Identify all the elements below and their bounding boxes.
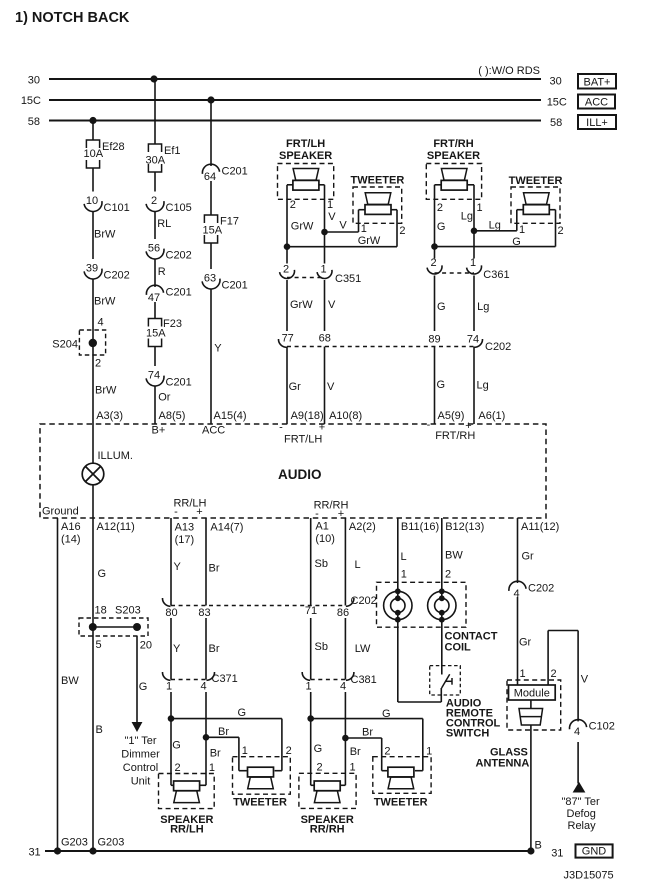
svg-text:( ):W/O RDS: ( ):W/O RDS (478, 65, 540, 77)
wire C201 to fuse F23 (154, 302, 156, 319)
svg-text:(10): (10) (315, 533, 335, 545)
svg-text:FRT/RH: FRT/RH (435, 430, 475, 442)
svg-text:C381: C381 (351, 674, 377, 686)
wire F17 to C201-63 (210, 243, 212, 269)
svg-text:C201: C201 (166, 286, 192, 298)
wire speaker FRT/RH pin1 (467, 184, 474, 186)
pin A13(17) wire Y (170, 518, 172, 606)
svg-text:2: 2 (551, 668, 557, 680)
svg-text:Gr: Gr (519, 637, 532, 649)
svg-text:Ef28: Ef28 (102, 141, 125, 153)
svg-text:SWITCH: SWITCH (446, 728, 489, 740)
svg-text:1: 1 (477, 202, 483, 214)
wire LW C202 to C381 (344, 618, 346, 680)
svg-text:Relay: Relay (568, 820, 597, 832)
svg-text:Gr: Gr (289, 381, 302, 393)
svg-text:2: 2 (399, 225, 405, 237)
bus 30 (49, 78, 541, 80)
svg-text:2: 2 (445, 569, 451, 581)
svg-text:L: L (401, 551, 407, 563)
svg-text:C105: C105 (166, 202, 192, 214)
junction G203 A16 (54, 847, 61, 854)
svg-text:G203: G203 (61, 837, 88, 849)
svg-text:F23: F23 (163, 318, 182, 330)
svg-text:G: G (314, 743, 323, 755)
wire Br C202 to C371 (205, 618, 207, 680)
svg-text:74: 74 (467, 334, 479, 346)
svg-text:2: 2 (283, 264, 289, 276)
wire S203 to dimmer control unit (136, 636, 138, 712)
svg-text:30A: 30A (146, 155, 166, 167)
svg-text:A11(12): A11(12) (521, 521, 559, 533)
svg-text:TWEETER: TWEETER (351, 175, 405, 187)
svg-text:58: 58 (28, 116, 40, 128)
arrow 87 Ter defog relay (574, 783, 585, 792)
svg-text:A10(8): A10(8) (329, 410, 362, 422)
glass antenna module box (507, 680, 561, 730)
tweeter FRT/LH box (353, 187, 402, 223)
svg-text:C202: C202 (166, 250, 192, 262)
svg-text:B12(13): B12(13) (445, 521, 484, 533)
svg-text:Ground: Ground (42, 506, 79, 518)
svg-text:C201: C201 (222, 165, 248, 177)
svg-text:2: 2 (430, 257, 436, 269)
svg-text:+: + (196, 506, 202, 518)
svg-text:A12(11): A12(11) (97, 521, 135, 533)
svg-text:BW: BW (445, 550, 463, 562)
wire Sb C202 to C381 (310, 618, 312, 680)
wire GrW C351 to C202 (286, 280, 288, 331)
svg-text:B+: B+ (152, 425, 166, 437)
svg-text:FRT/RH: FRT/RH (433, 138, 473, 150)
wire G C361 to C202 (434, 276, 436, 332)
svg-text:Lg: Lg (477, 380, 489, 392)
wire BrW C202 to AUDIO A3 (92, 279, 94, 424)
svg-text:4: 4 (98, 317, 104, 329)
speaker RR/LH symbol (174, 781, 200, 791)
svg-text:1) NOTCH BACK: 1) NOTCH BACK (15, 10, 130, 26)
fuse Ef28 10A (86, 140, 99, 148)
svg-text:BrW: BrW (94, 296, 116, 308)
svg-text:G: G (172, 739, 181, 751)
wire Gr C202 to A9 (286, 347, 288, 425)
svg-text:C202: C202 (104, 270, 130, 282)
junction glass antenna ground (527, 847, 534, 854)
pin A16(14) wire BW (57, 518, 59, 851)
svg-text:1: 1 (520, 668, 526, 680)
svg-text:V: V (328, 211, 336, 223)
pin B11(16) wire L (397, 518, 399, 598)
pin A12(11) wire G (92, 518, 94, 851)
bus 15C (49, 99, 541, 101)
wire G C202 to A5 (434, 347, 436, 425)
wire Y C202 to C371 (170, 618, 172, 680)
speaker FRT/RH box (426, 164, 481, 200)
svg-text:31: 31 (551, 848, 563, 860)
fuse Ef1 30A (148, 144, 161, 152)
svg-text:5: 5 (96, 639, 102, 651)
svg-text:15C: 15C (21, 95, 41, 107)
svg-text:56: 56 (148, 243, 160, 255)
svg-text:A9(18): A9(18) (291, 410, 324, 422)
wire 58 to fuse Ef28 (92, 121, 94, 141)
wire tweeter FRT/LH pin2 (396, 210, 398, 247)
wire BrW C101 to C202 (92, 212, 94, 260)
terminal box ILL+ (578, 115, 616, 129)
svg-text:Br: Br (210, 748, 221, 760)
wire V C351 to C202 (324, 280, 326, 331)
wire tweeter FRT/RH pin2 (555, 210, 557, 247)
svg-text:Control: Control (123, 762, 158, 774)
svg-text:15C: 15C (547, 97, 567, 109)
svg-text:RR/RH: RR/RH (310, 824, 345, 836)
svg-text:S203: S203 (115, 605, 141, 617)
arrow to dimmer control unit (136, 712, 138, 723)
svg-text:B: B (96, 724, 103, 736)
svg-text:1: 1 (401, 569, 407, 581)
svg-text:-: - (174, 506, 178, 518)
tweeter FRT/RH box (511, 187, 560, 223)
svg-text:ANTENNA: ANTENNA (476, 758, 530, 770)
terminal box ACC (578, 95, 615, 109)
svg-text:Y: Y (214, 343, 222, 355)
svg-text:A16: A16 (61, 521, 81, 533)
wire RL C105 to C202 (154, 212, 156, 240)
svg-text:1: 1 (470, 257, 476, 269)
tweeter FRT/LH symbol (365, 193, 391, 205)
tweeter RR/LH symbol (248, 767, 274, 777)
svg-text:TWEETER: TWEETER (233, 796, 287, 808)
svg-text:31: 31 (28, 847, 40, 859)
svg-text:SPEAKER: SPEAKER (427, 150, 480, 162)
svg-text:TWEETER: TWEETER (509, 175, 563, 187)
speaker FRT/RH symbol (441, 169, 467, 181)
svg-text:Br: Br (209, 643, 220, 655)
svg-text:C351: C351 (335, 273, 361, 285)
svg-text:Lg: Lg (461, 211, 473, 223)
audio remote control switch box (430, 666, 461, 695)
svg-text:AUDIO: AUDIO (278, 467, 322, 482)
svg-text:4: 4 (574, 726, 580, 738)
svg-text:Br: Br (362, 727, 373, 739)
wire R C202 to C201 (154, 259, 156, 287)
svg-text:20: 20 (140, 640, 152, 652)
svg-text:"87" Ter: "87" Ter (562, 796, 601, 808)
svg-text:G: G (437, 379, 446, 391)
svg-text:-: - (279, 422, 283, 434)
svg-text:C371: C371 (212, 673, 238, 685)
wire B11 to switch (398, 701, 442, 703)
wire Br to tweeter RR/LH pin1 (206, 736, 239, 738)
svg-text:G203: G203 (98, 837, 125, 849)
svg-text:G: G (437, 301, 446, 313)
svg-text:J3D15075: J3D15075 (564, 870, 614, 882)
wire C201 to fuse F17 (210, 181, 212, 215)
svg-text:Lg: Lg (489, 220, 501, 232)
svg-text:R: R (158, 266, 166, 278)
svg-text:71: 71 (305, 605, 317, 617)
wire Y C201 to AUDIO A15 (210, 289, 212, 424)
svg-text:1: 1 (519, 224, 525, 236)
svg-text:+: + (319, 422, 325, 434)
pin A1(10) wire Sb (310, 518, 312, 606)
junction bus15C to C201-64 (207, 96, 214, 103)
svg-text:BAT+: BAT+ (583, 77, 610, 89)
svg-text:1: 1 (209, 762, 215, 774)
svg-text:39: 39 (86, 263, 98, 275)
svg-text:Defog: Defog (567, 808, 596, 820)
wire Gr C202 to module (517, 597, 519, 685)
svg-text:77: 77 (282, 333, 294, 345)
svg-text:V: V (327, 381, 335, 393)
wire tweeter FRT/RH pin1 (516, 210, 518, 231)
pin A14(7) wire Br (205, 518, 207, 606)
wire Ef1 to C105 (154, 172, 156, 192)
svg-text:V: V (581, 674, 589, 686)
svg-text:Sb: Sb (315, 641, 328, 653)
svg-text:2: 2 (558, 225, 564, 237)
pin B12(13) wire BW (441, 518, 443, 598)
bus 58 (49, 120, 541, 122)
AUDIO unit box (40, 424, 546, 518)
svg-text:ILL+: ILL+ (586, 117, 608, 129)
fuse F17 15A (204, 215, 217, 223)
svg-text:F17: F17 (220, 216, 239, 228)
svg-text:4: 4 (340, 681, 346, 693)
connector C381 pins 1 4 (302, 672, 310, 680)
svg-text:(17): (17) (175, 534, 195, 546)
svg-text:V: V (328, 299, 336, 311)
svg-text:G: G (238, 707, 247, 719)
svg-text:Module: Module (514, 688, 550, 700)
svg-text:G: G (382, 708, 391, 720)
switch contact and lever (442, 674, 450, 688)
svg-text:4: 4 (200, 681, 206, 693)
wire Br C381 to speaker RR/RH pin1 (344, 692, 346, 785)
svg-text:Br: Br (350, 746, 361, 758)
wire glass antenna to ground 31 (530, 725, 532, 851)
svg-text:2: 2 (151, 195, 157, 207)
svg-text:(14): (14) (61, 534, 81, 546)
svg-text:30: 30 (550, 76, 562, 88)
svg-text:2: 2 (95, 357, 101, 369)
svg-text:83: 83 (198, 607, 210, 619)
wire Ef28 to C101 (92, 168, 94, 192)
splice S204 (79, 330, 105, 355)
svg-text:L: L (355, 559, 361, 571)
bus 31 (45, 850, 531, 852)
svg-text:Lg: Lg (477, 301, 489, 313)
svg-text:BW: BW (61, 675, 79, 687)
wire G C381 to speaker RR/RH pin2 (310, 692, 312, 785)
connector C202 row pins 80 83 71 86 (162, 598, 170, 606)
wire Or C201 to AUDIO A8 (154, 386, 156, 424)
svg-text:Sb: Sb (315, 558, 328, 570)
svg-text:Or: Or (158, 392, 171, 404)
svg-text:C201: C201 (166, 377, 192, 389)
svg-text:1: 1 (426, 746, 432, 758)
wire Lg C361 to C202 (473, 276, 475, 332)
wire V C202 to A10 (324, 347, 326, 425)
svg-text:Br: Br (218, 726, 229, 738)
svg-text:GrW: GrW (290, 299, 313, 311)
terminal box BAT+ (578, 74, 616, 89)
svg-text:G: G (512, 236, 521, 248)
pin A11(12) wire Gr (517, 518, 519, 583)
glass antenna element (530, 700, 532, 709)
junction FRT/RH pin2 to tweeter (431, 243, 438, 250)
svg-text:A2(2): A2(2) (349, 521, 376, 533)
svg-text:V: V (339, 220, 347, 232)
wire Br C371 to speaker RR/LH pin1 (205, 692, 207, 785)
svg-text:2: 2 (384, 746, 390, 758)
svg-text:1: 1 (166, 681, 172, 693)
svg-text:GrW: GrW (291, 221, 314, 233)
svg-text:47: 47 (148, 292, 160, 304)
svg-text:RR/LH: RR/LH (170, 824, 204, 836)
svg-text:80: 80 (165, 607, 177, 619)
svg-text:63: 63 (204, 273, 216, 285)
svg-text:15A: 15A (146, 328, 166, 340)
svg-text:C202: C202 (351, 595, 377, 607)
svg-text:A15(4): A15(4) (214, 410, 247, 422)
svg-text:A5(9): A5(9) (438, 410, 465, 422)
svg-text:GND: GND (582, 846, 607, 858)
svg-text:86: 86 (337, 607, 349, 619)
svg-text:68: 68 (319, 333, 331, 345)
tweeter RR/LH box (233, 757, 291, 795)
svg-text:A6(1): A6(1) (478, 410, 505, 422)
svg-text:1: 1 (361, 223, 367, 235)
svg-text:A8(5): A8(5) (159, 410, 186, 422)
svg-text:S204: S204 (52, 339, 78, 351)
svg-text:C102: C102 (589, 721, 615, 733)
speaker RR/RH symbol (314, 781, 340, 791)
svg-text:BrW: BrW (95, 384, 117, 396)
svg-text:2: 2 (286, 745, 292, 757)
svg-text:B: B (535, 840, 542, 852)
svg-text:Y: Y (173, 643, 181, 655)
svg-text:2: 2 (437, 202, 443, 214)
svg-text:1: 1 (305, 681, 311, 693)
svg-text:74: 74 (148, 370, 160, 382)
wire F23 to C201-74 (154, 347, 156, 367)
svg-text:FRT/LH: FRT/LH (284, 434, 322, 446)
wire Br to tweeter RR/RH pin2 (345, 737, 381, 739)
speaker RR/LH box (159, 774, 215, 809)
svg-text:1: 1 (242, 745, 248, 757)
svg-text:ACC: ACC (202, 425, 225, 437)
wire V C102 to defog relay (577, 742, 579, 784)
svg-text:1: 1 (320, 264, 326, 276)
pin A2(2) wire L (344, 518, 346, 606)
wire G C371 to speaker RR/LH pin2 (170, 692, 172, 785)
speaker FRT/LH box (278, 164, 334, 200)
fuse F23 15A (148, 319, 161, 327)
svg-text:GrW: GrW (358, 235, 381, 247)
svg-text:A1: A1 (315, 521, 328, 533)
svg-text:A14(7): A14(7) (210, 522, 243, 534)
svg-text:SPEAKER: SPEAKER (279, 150, 332, 162)
svg-text:G: G (437, 221, 446, 233)
svg-text:Unit: Unit (131, 776, 151, 788)
wire G to tweeter RR/RH pin1 (311, 718, 423, 720)
svg-text:C201: C201 (222, 280, 248, 292)
svg-text:C101: C101 (104, 202, 130, 214)
contact coil left ring (384, 591, 412, 619)
svg-text:+: + (338, 508, 344, 520)
wire G to tweeter RR/LH pin2 (171, 718, 282, 720)
wire 15C to C201-64 (210, 100, 212, 166)
svg-text:1: 1 (350, 762, 356, 774)
wire Lg C202 to A6 (473, 347, 475, 425)
junction bus30 to Ef1 (150, 75, 157, 82)
junction pin2 to tweeter (284, 243, 291, 250)
junction FRT/RH pin1 to tweeter (471, 228, 478, 235)
svg-text:A3(3): A3(3) (96, 410, 123, 422)
tweeter FRT/RH symbol (524, 193, 550, 205)
junction G203 A12 (89, 847, 96, 854)
svg-text:TWEETER: TWEETER (374, 796, 428, 808)
svg-text:Ef1: Ef1 (164, 145, 181, 157)
speaker FRT/LH symbol (293, 169, 319, 181)
svg-text:-: - (315, 508, 319, 520)
junction pin1 to tweeter (321, 229, 328, 236)
svg-text:Gr: Gr (522, 551, 535, 563)
svg-text:"1" Ter: "1" Ter (124, 735, 156, 747)
module rect (509, 685, 556, 700)
svg-text:LW: LW (355, 643, 371, 655)
svg-text:30: 30 (28, 75, 40, 87)
svg-text:ACC: ACC (585, 97, 608, 109)
svg-text:64: 64 (204, 171, 216, 183)
svg-text:BrW: BrW (94, 229, 116, 241)
svg-text:4: 4 (513, 588, 519, 600)
svg-text:18: 18 (95, 605, 107, 617)
svg-text:58: 58 (550, 117, 562, 129)
svg-text:COIL: COIL (445, 642, 472, 654)
svg-text:2: 2 (175, 762, 181, 774)
svg-text:B11(16): B11(16) (401, 521, 439, 533)
svg-text:C202: C202 (485, 341, 511, 353)
svg-text:RL: RL (157, 218, 171, 230)
svg-text:G: G (98, 568, 107, 580)
svg-text:ILLUM.: ILLUM. (98, 450, 133, 462)
tweeter RR/RH symbol (388, 767, 414, 777)
contact coil right ring (428, 591, 456, 619)
svg-text:G: G (139, 681, 148, 693)
svg-text:Y: Y (174, 561, 182, 573)
wire speaker FRT/LH pin1 (319, 184, 325, 186)
svg-text:15A: 15A (203, 225, 223, 237)
svg-text:FRT/LH: FRT/LH (286, 138, 325, 150)
wire 30 to fuse Ef1 (154, 79, 156, 144)
speaker RR/RH box (299, 773, 356, 808)
svg-text:Br: Br (209, 563, 220, 575)
svg-text:C202: C202 (528, 582, 554, 594)
junction bus58 to Ef28 (89, 117, 96, 124)
svg-text:-: - (427, 419, 431, 431)
svg-text:A13: A13 (175, 522, 195, 534)
svg-text:1: 1 (327, 199, 333, 211)
svg-text:10A: 10A (84, 148, 104, 160)
svg-text:10: 10 (86, 195, 98, 207)
tweeter RR/RH box (373, 757, 431, 794)
svg-text:2: 2 (317, 762, 323, 774)
svg-text:Dimmer: Dimmer (121, 749, 160, 761)
wire speaker FRT/LH pin2 (287, 184, 293, 186)
wire tweeter FRT/LH pin1 (358, 210, 360, 232)
